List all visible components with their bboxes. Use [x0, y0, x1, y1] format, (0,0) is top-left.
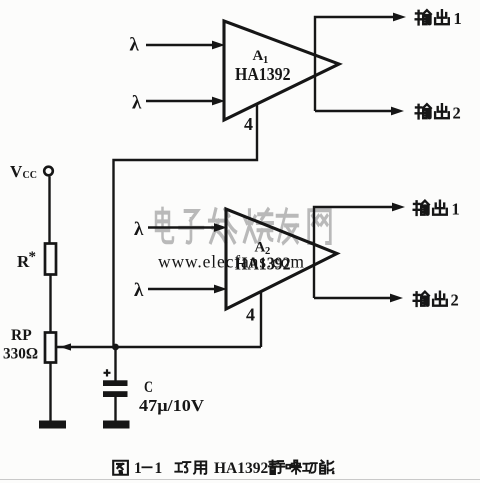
svg-text:λ: λ — [134, 280, 144, 301]
svg-text:HA1392: HA1392 — [235, 64, 291, 84]
svg-text:47μ/10V: 47μ/10V — [139, 396, 205, 415]
svg-text:1: 1 — [134, 460, 142, 477]
svg-text:2: 2 — [451, 291, 459, 310]
svg-text:330Ω: 330Ω — [3, 346, 38, 363]
svg-text:V: V — [10, 162, 23, 181]
svg-text:HA1392: HA1392 — [235, 254, 291, 274]
svg-text:λ: λ — [132, 93, 142, 114]
svg-text:λ: λ — [134, 219, 144, 240]
svg-text:λ: λ — [130, 35, 140, 56]
svg-text:2: 2 — [453, 104, 461, 123]
svg-text:RP: RP — [11, 327, 32, 344]
svg-text:4: 4 — [244, 114, 253, 134]
svg-text:C: C — [144, 379, 153, 396]
svg-text:CC: CC — [23, 170, 37, 181]
svg-text:1: 1 — [155, 460, 163, 477]
svg-text:HA1392: HA1392 — [214, 460, 269, 477]
svg-text:*: * — [29, 249, 37, 265]
svg-text:4: 4 — [246, 305, 255, 325]
svg-text:1: 1 — [452, 200, 460, 219]
svg-text:1: 1 — [454, 9, 462, 28]
svg-text:A: A — [253, 48, 264, 64]
